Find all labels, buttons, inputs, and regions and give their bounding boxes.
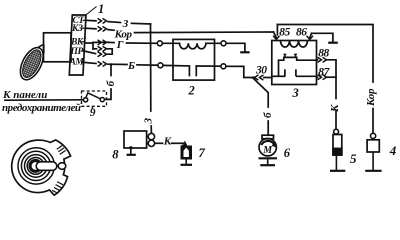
- svg-text:9: 9: [90, 107, 96, 119]
- svg-text:ПР: ПР: [70, 47, 84, 57]
- svg-text:КЗ: КЗ: [71, 24, 83, 34]
- svg-text:85: 85: [279, 26, 290, 38]
- svg-text:Г: Г: [116, 39, 124, 51]
- svg-text:предохранителей: предохранителей: [2, 102, 81, 114]
- svg-text:5: 5: [350, 151, 357, 166]
- svg-text:1: 1: [98, 2, 104, 16]
- svg-text:6: 6: [284, 146, 291, 160]
- svg-text:2: 2: [188, 84, 195, 98]
- svg-text:88: 88: [318, 47, 329, 59]
- svg-text:Кор: Кор: [365, 88, 377, 107]
- svg-text:8: 8: [112, 148, 119, 162]
- svg-text:З: З: [143, 118, 155, 125]
- svg-text:б: б: [262, 112, 274, 118]
- svg-text:7: 7: [199, 146, 206, 160]
- svg-text:Б: Б: [127, 60, 135, 72]
- svg-text:4: 4: [389, 143, 397, 158]
- svg-text:86: 86: [296, 26, 307, 38]
- svg-text:АМ: АМ: [69, 58, 85, 68]
- svg-text:К: К: [163, 136, 172, 148]
- svg-text:б: б: [105, 80, 117, 86]
- svg-text:К панели: К панели: [2, 89, 47, 101]
- svg-text:87: 87: [318, 67, 330, 79]
- svg-text:3: 3: [292, 86, 299, 100]
- svg-text:М: М: [262, 145, 273, 156]
- svg-text:30: 30: [255, 64, 267, 76]
- svg-text:К: К: [329, 104, 341, 113]
